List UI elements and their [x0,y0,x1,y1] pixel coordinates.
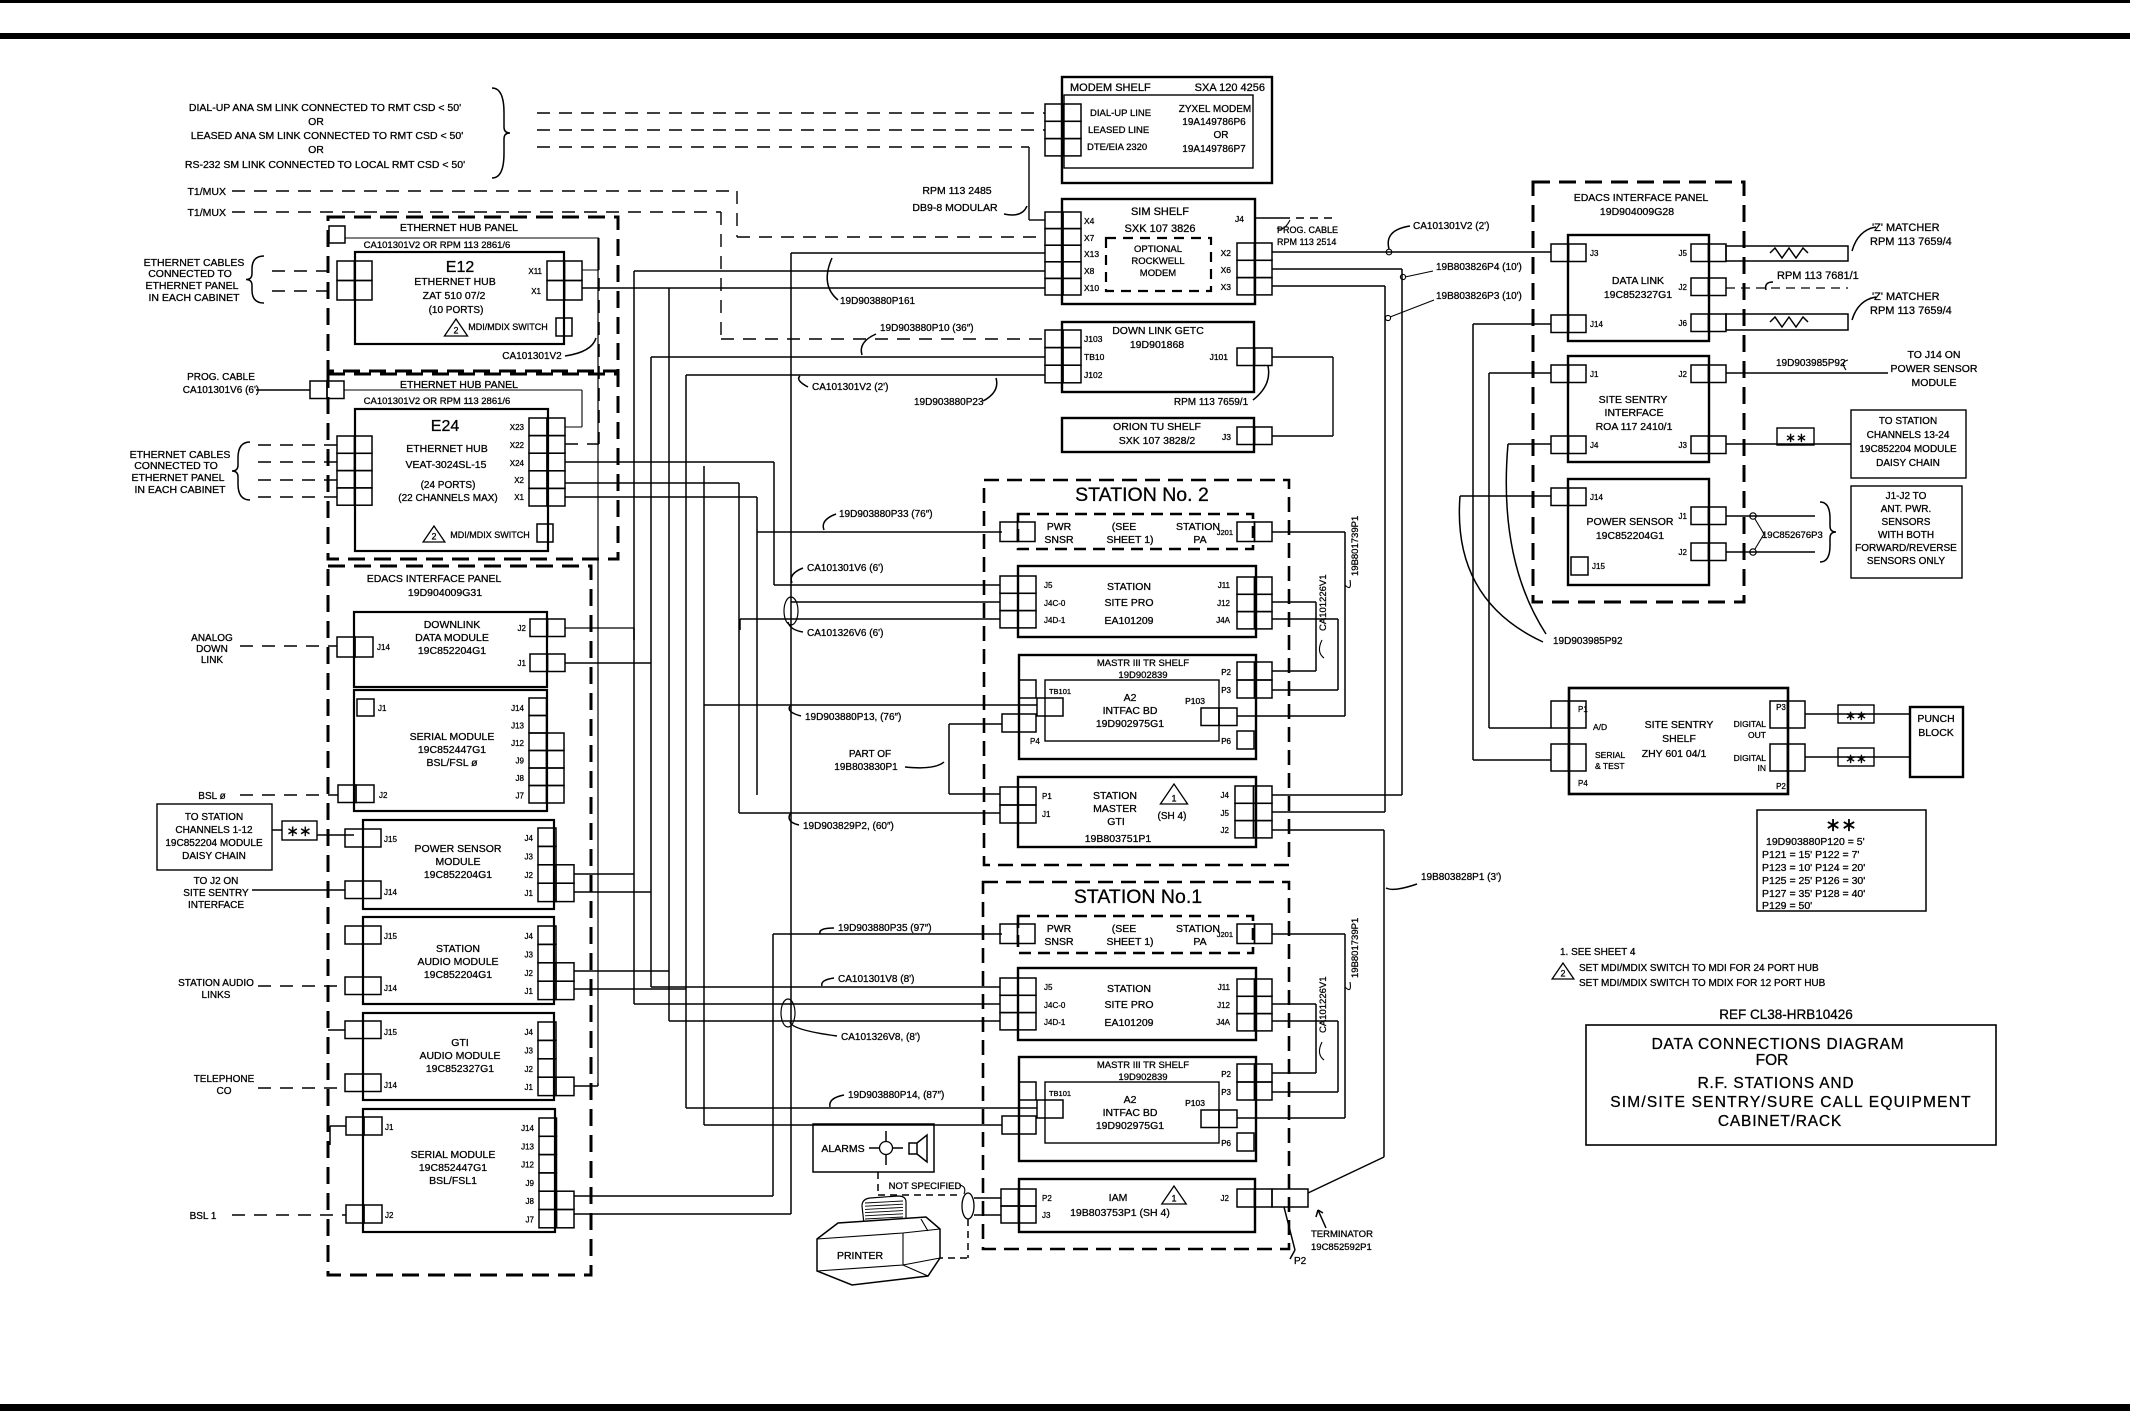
svg-text:ZHY 601 04/1: ZHY 601 04/1 [1642,748,1707,760]
svg-text:DOWNLINK: DOWNLINK [424,619,481,631]
svg-text:ANT. PWR.: ANT. PWR. [1881,504,1932,515]
svg-text:J201: J201 [1217,528,1233,537]
svg-text:OUT: OUT [1748,730,1766,740]
svg-text:J14: J14 [1590,320,1603,329]
svg-text:J4: J4 [1235,214,1244,224]
svg-text:J4: J4 [525,1028,534,1037]
svg-text:J4: J4 [1221,791,1230,800]
svg-text:J1: J1 [518,659,527,668]
svg-text:SITE SENTRY: SITE SENTRY [1645,719,1714,731]
svg-text:INTERFACE: INTERFACE [188,900,244,911]
svg-text:J8: J8 [516,774,525,783]
svg-text:A2: A2 [1124,692,1137,704]
svg-text:CA101301V2 (2'): CA101301V2 (2') [812,382,888,393]
svg-text:X11: X11 [528,267,542,276]
svg-text:PA: PA [1193,936,1206,948]
svg-text:FORWARD/REVERSE: FORWARD/REVERSE [1855,543,1957,554]
svg-text:LINK: LINK [201,655,224,666]
svg-text:J9: J9 [526,1179,535,1188]
svg-text:J4A: J4A [1216,616,1230,625]
svg-text:PWR: PWR [1047,923,1072,935]
svg-text:J1: J1 [1679,512,1688,521]
svg-text:STATION: STATION [1107,581,1151,593]
svg-text:DOWN LINK GETC: DOWN LINK GETC [1112,325,1204,337]
svg-text:SXA 120 4256: SXA 120 4256 [1195,82,1265,94]
svg-text:DB9-8 MODULAR: DB9-8 MODULAR [912,202,998,214]
svg-text:∗∗: ∗∗ [1845,708,1867,723]
svg-text:GTI: GTI [451,1037,469,1049]
svg-text:MASTR III TR SHELF: MASTR III TR SHELF [1097,1060,1189,1071]
svg-text:RS-232 SM LINK CONNECTED TO LO: RS-232 SM LINK CONNECTED TO LOCAL RMT CS… [185,159,465,171]
svg-text:P6: P6 [1221,737,1231,746]
svg-text:J2: J2 [1221,1194,1230,1203]
svg-text:POWER SENSOR: POWER SENSOR [1891,363,1978,375]
svg-text:BSL/FSL ø: BSL/FSL ø [427,757,479,769]
svg-text:J5: J5 [1044,983,1053,992]
svg-text:STATION: STATION [436,943,480,955]
svg-text:DATA CONNECTIONS DIAGRAM: DATA CONNECTIONS DIAGRAM [1652,1036,1905,1053]
svg-text:CO: CO [217,1086,232,1097]
svg-text:19D903880P14, (87″): 19D903880P14, (87″) [848,1090,944,1101]
svg-text:CA101301V2 OR RPM 113 2861/6: CA101301V2 OR RPM 113 2861/6 [364,240,511,251]
svg-text:J102: J102 [1084,370,1103,380]
svg-text:POWER SENSOR: POWER SENSOR [415,843,502,855]
svg-text:DIAL-UP ANA SM LINK CONNECTED: DIAL-UP ANA SM LINK CONNECTED TO RMT CSD… [189,102,461,114]
svg-text:EA101209: EA101209 [1104,615,1153,627]
svg-text:J3: J3 [1042,1211,1051,1220]
svg-text:RPM 113 7681/1: RPM 113 7681/1 [1777,270,1859,282]
svg-text:J2: J2 [385,1211,394,1220]
svg-text:J4C-0: J4C-0 [1044,1001,1066,1010]
svg-text:∗∗: ∗∗ [1825,815,1857,836]
svg-text:MODULE: MODULE [436,856,481,868]
svg-text:J11: J11 [1218,581,1231,590]
svg-text:TB10: TB10 [1084,352,1105,362]
svg-text:SXK 107 3828/2: SXK 107 3828/2 [1119,435,1196,447]
svg-text:BSL/FSL1: BSL/FSL1 [429,1175,477,1187]
svg-text:SIM SHELF: SIM SHELF [1131,206,1189,218]
svg-text:MASTR III TR SHELF: MASTR III TR SHELF [1097,658,1189,669]
svg-text:SERIAL MODULE: SERIAL MODULE [411,1149,496,1161]
svg-text:SHEET 1): SHEET 1) [1106,936,1153,948]
svg-text:PRINTER: PRINTER [837,1250,884,1262]
svg-text:NOT SPECIFIED: NOT SPECIFIED [889,1181,962,1192]
svg-text:SITE SENTRY: SITE SENTRY [183,888,249,899]
svg-text:J13: J13 [511,722,524,731]
svg-text:P121 = 15' P122 = 7': P121 = 15' P122 = 7' [1762,849,1859,861]
svg-text:ETHERNET HUB: ETHERNET HUB [406,443,487,455]
svg-text:J14: J14 [384,984,397,993]
svg-text:J3: J3 [525,852,534,861]
svg-text:(10 PORTS): (10 PORTS) [429,305,484,316]
svg-text:J1: J1 [1042,810,1051,819]
svg-text:19B801739P1: 19B801739P1 [1350,516,1361,576]
svg-text:T1/MUX: T1/MUX [187,186,226,198]
svg-text:P2: P2 [1221,1070,1231,1079]
svg-text:J14: J14 [377,643,390,652]
svg-text:J4D-1: J4D-1 [1044,1018,1066,1027]
svg-text:J7: J7 [516,792,525,801]
svg-text:TO STATION: TO STATION [185,812,243,823]
svg-text:SERIAL MODULE: SERIAL MODULE [410,731,495,743]
svg-text:RPM 113 2485: RPM 113 2485 [922,185,991,197]
svg-text:STATION AUDIO: STATION AUDIO [178,978,254,989]
svg-text:EA101209: EA101209 [1104,1017,1153,1029]
svg-text:J12: J12 [1217,599,1230,608]
svg-text:IN: IN [1758,763,1767,773]
svg-text:2: 2 [1560,969,1565,979]
svg-text:1. SEE SHEET 4: 1. SEE SHEET 4 [1560,947,1636,958]
svg-text:19D903985P92: 19D903985P92 [1553,636,1623,647]
svg-text:CA101301V6 (6'): CA101301V6 (6') [807,563,883,574]
svg-text:DIGITAL: DIGITAL [1734,753,1767,763]
svg-text:J103: J103 [1084,334,1103,344]
svg-text:X10: X10 [1084,283,1099,293]
svg-text:19D904009G31: 19D904009G31 [408,587,482,599]
svg-text:P2: P2 [1776,782,1786,791]
svg-text:X1: X1 [531,287,541,296]
svg-text:TB101: TB101 [1049,1089,1071,1098]
svg-text:19D902975G1: 19D902975G1 [1096,1120,1164,1132]
svg-text:RPM 113 7659/4: RPM 113 7659/4 [1870,236,1952,248]
svg-text:X4: X4 [1084,216,1095,226]
svg-text:J7: J7 [526,1216,535,1225]
svg-text:& TEST: & TEST [1595,761,1625,771]
svg-text:MODULE: MODULE [1912,377,1957,389]
svg-text:SXK 107 3826: SXK 107 3826 [1125,223,1196,235]
svg-text:RPM 113 2514: RPM 113 2514 [1277,237,1336,247]
svg-text:19B803828P1 (3'): 19B803828P1 (3') [1421,872,1501,883]
svg-text:J2: J2 [1679,283,1688,292]
svg-text:TB101: TB101 [1049,687,1071,696]
svg-text:OR: OR [1214,130,1229,141]
svg-text:PROG. CABLE: PROG. CABLE [1277,225,1338,235]
svg-text:P1: P1 [1042,792,1052,801]
svg-text:J4A: J4A [1216,1018,1230,1027]
svg-text:FOR: FOR [1756,1052,1789,1069]
svg-text:LEASED LINE: LEASED LINE [1088,125,1149,136]
svg-text:19C852592P1: 19C852592P1 [1311,1242,1372,1253]
svg-text:J1: J1 [378,704,387,713]
svg-text:∗∗: ∗∗ [286,823,311,840]
svg-text:J14: J14 [521,1124,534,1133]
svg-text:MODEM: MODEM [1140,268,1177,279]
svg-text:(SEE: (SEE [1112,923,1137,935]
svg-text:VEAT-3024SL-15: VEAT-3024SL-15 [406,459,487,471]
svg-text:J1: J1 [1590,370,1599,379]
svg-text:ETHERNET HUB: ETHERNET HUB [414,276,495,288]
svg-text:19A149786P7: 19A149786P7 [1182,144,1246,155]
svg-text:19B803751P1: 19B803751P1 [1085,833,1152,845]
svg-text:J1: J1 [525,987,534,996]
svg-text:(SEE: (SEE [1112,521,1137,533]
svg-text:CA101326V8, (8'): CA101326V8, (8') [841,1032,920,1043]
svg-text:SIM/SITE SENTRY/SURE CALL E: SIM/SITE SENTRY/SURE CALL EQUIPMENT [1610,1094,1972,1111]
svg-text:IN EACH CABINET: IN EACH CABINET [134,484,226,496]
svg-text:DAISY CHAIN: DAISY CHAIN [182,851,246,862]
svg-text:J5: J5 [1221,809,1230,818]
svg-text:RPM 113 7659/1: RPM 113 7659/1 [1174,397,1249,408]
svg-text:19B803753P1 (SH 4): 19B803753P1 (SH 4) [1070,1207,1170,1219]
svg-text:'Z' MATCHER: 'Z' MATCHER [1872,222,1940,234]
svg-text:INTFAC BD: INTFAC BD [1103,705,1158,717]
svg-text:P6: P6 [1221,1139,1231,1148]
svg-text:STATION No. 2: STATION No. 2 [1075,484,1209,506]
svg-text:X7: X7 [1084,233,1095,243]
svg-text:J14: J14 [1590,493,1603,502]
svg-text:TO STATION: TO STATION [1879,416,1937,427]
svg-text:J2: J2 [525,1065,534,1074]
svg-text:J3: J3 [1590,249,1599,258]
svg-text:RPM 113 7659/4: RPM 113 7659/4 [1870,305,1952,317]
svg-text:P129 = 50': P129 = 50' [1762,900,1812,912]
svg-text:J4: J4 [525,834,534,843]
svg-text:19B801739P1: 19B801739P1 [1350,918,1361,978]
svg-text:P125 = 25' P126 = 30': P125 = 25' P126 = 30' [1762,875,1865,887]
svg-text:POWER SENSOR: POWER SENSOR [1587,516,1674,528]
svg-text:PART OF: PART OF [849,749,891,760]
svg-text:J3: J3 [1222,432,1231,442]
svg-text:19C852204G1: 19C852204G1 [424,869,492,881]
svg-text:LINKS: LINKS [202,990,231,1001]
svg-text:19D903880P33 (76″): 19D903880P33 (76″) [839,509,933,520]
svg-text:19D903880P13, (76″): 19D903880P13, (76″) [805,712,901,723]
svg-text:AUDIO MODULE: AUDIO MODULE [419,1050,500,1062]
svg-text:X1: X1 [514,493,524,502]
svg-text:19D901868: 19D901868 [1130,339,1184,351]
svg-text:CA101226V1: CA101226V1 [1318,574,1329,631]
svg-text:TO J14 ON: TO J14 ON [1908,349,1961,361]
svg-text:J4: J4 [1590,441,1599,450]
svg-text:ALARMS: ALARMS [821,1143,864,1155]
svg-text:DATA LINK: DATA LINK [1612,275,1664,287]
svg-text:GTI: GTI [1107,816,1125,828]
svg-text:19D903880P10 (36″): 19D903880P10 (36″) [880,323,974,334]
svg-text:CA101301V2 (2'): CA101301V2 (2') [1413,221,1489,232]
svg-text:X22: X22 [510,441,525,450]
svg-text:19C852204G1: 19C852204G1 [1596,530,1664,542]
svg-text:J12: J12 [1217,1001,1230,1010]
svg-text:J2: J2 [1679,548,1688,557]
svg-text:SNSR: SNSR [1044,936,1074,948]
svg-text:X8: X8 [1084,266,1095,276]
svg-text:X13: X13 [1084,249,1099,259]
svg-text:OPTIONAL: OPTIONAL [1134,244,1182,255]
svg-text:J6: J6 [1679,319,1688,328]
svg-text:ROCKWELL: ROCKWELL [1131,256,1184,267]
svg-text:1: 1 [1171,794,1176,804]
svg-text:J15: J15 [384,835,397,844]
svg-text:DIGITAL: DIGITAL [1734,719,1767,729]
svg-text:BLOCK: BLOCK [1918,727,1954,739]
svg-text:TO J2 ON: TO J2 ON [194,876,239,887]
svg-text:ROA 117 2410/1: ROA 117 2410/1 [1596,421,1673,433]
svg-text:ETHERNET HUB PANEL: ETHERNET HUB PANEL [400,222,518,234]
svg-text:J2: J2 [1221,826,1230,835]
svg-text:SENSORS: SENSORS [1882,517,1931,528]
svg-text:P1: P1 [1578,705,1588,714]
svg-text:MDI/MDIX SWITCH: MDI/MDIX SWITCH [468,322,548,332]
svg-text:19B803826P3 (10'): 19B803826P3 (10') [1436,291,1522,302]
svg-text:19C852204 MODULE: 19C852204 MODULE [1859,444,1957,455]
svg-text:19C852676P3: 19C852676P3 [1762,530,1823,541]
svg-text:P3: P3 [1221,1088,1231,1097]
svg-text:REF CL38-HRB10426: REF CL38-HRB10426 [1719,1007,1853,1022]
svg-text:SITE PRO: SITE PRO [1104,597,1153,609]
svg-text:X2: X2 [514,476,524,485]
svg-text:J15: J15 [384,1028,397,1037]
svg-text:J4: J4 [525,932,534,941]
svg-text:J8: J8 [526,1197,535,1206]
svg-text:J2: J2 [525,969,534,978]
svg-text:∗∗: ∗∗ [1785,430,1807,445]
svg-text:J9: J9 [516,757,525,766]
svg-text:P2: P2 [1042,1194,1052,1203]
svg-text:E24: E24 [431,418,460,435]
svg-text:INTFAC BD: INTFAC BD [1103,1107,1158,1119]
svg-text:BSL ø: BSL ø [198,791,225,802]
svg-text:19C852204 MODULE: 19C852204 MODULE [165,838,263,849]
svg-text:J15: J15 [384,932,397,941]
svg-text:19C852327G1: 19C852327G1 [1604,289,1672,301]
svg-text:BSL 1: BSL 1 [190,1211,217,1222]
svg-text:SITE SENTRY: SITE SENTRY [1599,394,1668,406]
svg-text:19A149786P6: 19A149786P6 [1182,117,1246,128]
svg-text:DIAL-UP LINE: DIAL-UP LINE [1090,108,1151,119]
svg-text:J3: J3 [525,950,534,959]
svg-text:SENSORS ONLY: SENSORS ONLY [1867,556,1945,567]
svg-text:TELEPHONE: TELEPHONE [194,1074,255,1085]
svg-text:J2: J2 [518,624,527,633]
svg-text:STATION: STATION [1093,790,1137,802]
svg-text:X6: X6 [1221,265,1232,275]
svg-text:SNSR: SNSR [1044,534,1074,546]
svg-text:J101: J101 [1210,352,1229,362]
svg-text:J12: J12 [521,1161,534,1170]
svg-text:J201: J201 [1217,930,1233,939]
svg-text:∗∗: ∗∗ [1845,751,1867,766]
svg-text:J14: J14 [384,888,397,897]
svg-text:J4D-1: J4D-1 [1044,616,1066,625]
svg-text:19D903880P120 = 5': 19D903880P120 = 5' [1766,836,1865,848]
svg-text:P3: P3 [1776,703,1786,712]
svg-text:PA: PA [1193,534,1206,546]
svg-text:'Z' MATCHER: 'Z' MATCHER [1872,291,1940,303]
svg-text:P2: P2 [1221,668,1231,677]
svg-text:(24 PORTS): (24 PORTS) [421,480,476,491]
svg-text:P2: P2 [1294,1256,1307,1267]
svg-text:19D903880P35 (97″): 19D903880P35 (97″) [838,923,932,934]
svg-text:P4: P4 [1578,779,1588,788]
svg-text:P123 = 10' P124 = 20': P123 = 10' P124 = 20' [1762,862,1865,874]
svg-text:MASTER: MASTER [1093,803,1137,815]
svg-text:DTE/EIA 2320: DTE/EIA 2320 [1087,142,1147,153]
svg-text:J2: J2 [379,791,388,800]
svg-text:19D903880P161: 19D903880P161 [840,296,916,307]
svg-text:19D903985P92: 19D903985P92 [1776,358,1846,369]
svg-text:J11: J11 [1218,983,1231,992]
svg-text:CONNECTED TO: CONNECTED TO [134,460,218,472]
svg-text:J3: J3 [525,1046,534,1055]
svg-text:19D902975G1: 19D902975G1 [1096,718,1164,730]
svg-text:J3: J3 [1679,441,1688,450]
svg-text:EDACS INTERFACE PANEL: EDACS INTERFACE PANEL [367,573,502,585]
svg-text:OR: OR [308,144,324,156]
svg-text:EDACS INTERFACE PANEL: EDACS INTERFACE PANEL [1574,192,1709,204]
svg-text:ORION TU SHELF: ORION TU SHELF [1113,421,1201,433]
svg-text:SITE PRO: SITE PRO [1104,999,1153,1011]
svg-text:P3: P3 [1221,686,1231,695]
svg-text:T1/MUX: T1/MUX [187,207,226,219]
svg-text:J14: J14 [384,1081,397,1090]
svg-text:A/D: A/D [1593,722,1607,732]
svg-text:X23: X23 [510,423,525,432]
svg-text:19C852447G1: 19C852447G1 [418,744,486,756]
svg-text:CABINET/RACK: CABINET/RACK [1718,1113,1842,1130]
svg-text:J15: J15 [1592,562,1605,571]
svg-text:DOWN: DOWN [196,644,228,655]
svg-text:SERIAL: SERIAL [1595,750,1626,760]
svg-text:P103: P103 [1185,1098,1205,1108]
svg-text:J12: J12 [511,739,524,748]
svg-text:(22 CHANNELS MAX): (22 CHANNELS MAX) [398,493,497,504]
svg-text:TERMINATOR: TERMINATOR [1311,1229,1373,1240]
svg-text:19D903880P23: 19D903880P23 [914,397,984,408]
svg-text:CA101301V6 (6'): CA101301V6 (6') [183,385,259,396]
svg-text:X3: X3 [1221,282,1232,292]
svg-text:1: 1 [1171,1194,1176,1204]
svg-text:J1: J1 [525,889,534,898]
svg-text:CHANNELS 13-24: CHANNELS 13-24 [1867,430,1950,441]
svg-text:STATION: STATION [1176,521,1220,533]
svg-text:DATA MODULE: DATA MODULE [415,632,489,644]
svg-text:SHELF: SHELF [1662,733,1696,745]
svg-text:SHEET 1): SHEET 1) [1106,534,1153,546]
svg-text:X2: X2 [1221,248,1232,258]
svg-text:19D903829P2, (60″): 19D903829P2, (60″) [803,821,894,832]
svg-text:J4C-0: J4C-0 [1044,599,1066,608]
svg-text:ZAT 510 07/2: ZAT 510 07/2 [423,290,486,302]
svg-text:PWR: PWR [1047,521,1072,533]
svg-text:P127 = 35' P128 = 40': P127 = 35' P128 = 40' [1762,888,1865,900]
svg-text:2: 2 [431,532,436,542]
svg-text:(SH 4): (SH 4) [1158,811,1187,822]
svg-text:PROG. CABLE: PROG. CABLE [187,372,255,383]
svg-text:J1: J1 [385,1123,394,1132]
svg-text:LEASED ANA SM LINK CONNECTED T: LEASED ANA SM LINK CONNECTED TO RMT CSD … [191,130,463,142]
svg-text:CA101301V2 OR RPM 113 2861/6: CA101301V2 OR RPM 113 2861/6 [364,396,511,407]
svg-text:X24: X24 [510,459,525,468]
svg-text:ETHERNET HUB PANEL: ETHERNET HUB PANEL [400,379,518,391]
svg-text:19B803830P1: 19B803830P1 [834,762,898,773]
svg-text:IN EACH CABINET: IN EACH CABINET [148,292,240,304]
svg-text:CA101301V2: CA101301V2 [502,351,562,362]
svg-text:J1-J2 TO: J1-J2 TO [1886,491,1927,502]
svg-text:DAISY CHAIN: DAISY CHAIN [1876,458,1940,469]
svg-text:WITH BOTH: WITH BOTH [1878,530,1934,541]
svg-text:ANALOG: ANALOG [191,633,233,644]
svg-text:IAM: IAM [1109,1192,1128,1204]
svg-text:SET MDI/MDIX SWITCH TO MDI FOR: SET MDI/MDIX SWITCH TO MDI FOR 24 PORT H… [1579,963,1819,974]
svg-text:J2: J2 [1679,370,1688,379]
svg-text:P103: P103 [1185,696,1205,706]
svg-text:19D904009G28: 19D904009G28 [1600,206,1674,218]
svg-text:E12: E12 [446,259,475,276]
svg-text:STATION No.1: STATION No.1 [1074,886,1202,908]
svg-text:STATION: STATION [1176,923,1220,935]
svg-text:A2: A2 [1124,1094,1137,1106]
svg-text:CHANNELS 1-12: CHANNELS 1-12 [175,825,253,836]
